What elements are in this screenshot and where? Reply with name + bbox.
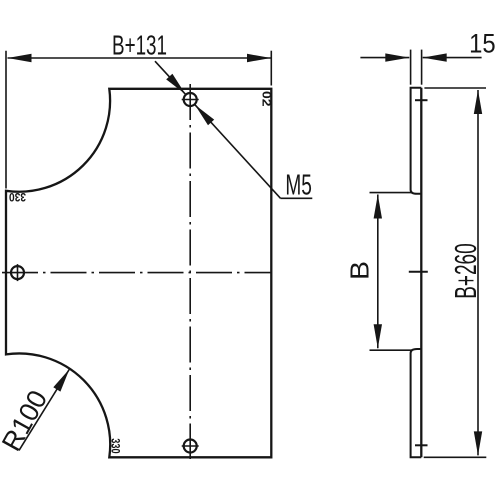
dimension B+131 line <box>8 57 272 59</box>
svg-text:M5: M5 <box>285 170 312 202</box>
hole left <box>11 264 24 281</box>
leader M5 upper segment <box>155 61 186 94</box>
dimension 15 extension lines <box>410 50 412 85</box>
dimension 15 line right <box>423 57 482 59</box>
side view top flange <box>411 88 422 194</box>
dimension B+260 arrow up <box>474 90 482 114</box>
svg-text:330: 330 <box>9 190 26 204</box>
leader M5 landing <box>281 197 313 199</box>
dimension B+131 extension line left <box>5 51 7 189</box>
svg-text:B+260: B+260 <box>448 243 483 299</box>
dimension B arrow up <box>374 195 382 219</box>
dimension 15 arrow left <box>385 53 409 61</box>
dimension B+131 extension line right <box>270 51 272 86</box>
dimension B line <box>377 195 379 349</box>
leader R100 <box>19 369 70 450</box>
svg-text:B+131: B+131 <box>112 29 167 60</box>
svg-text:15: 15 <box>469 29 496 59</box>
leader M5 arrow upper <box>166 74 185 95</box>
part outline (plan view of tee cover) <box>6 89 271 458</box>
dimension B extension lines <box>370 192 413 194</box>
horizontal centerline <box>2 272 272 274</box>
svg-text:330: 330 <box>109 438 123 454</box>
dimension B+131 arrow left <box>8 54 32 62</box>
leader M5 lower segment <box>195 105 281 199</box>
svg-text:R100: R100 <box>0 385 53 456</box>
dimension B+260 line <box>477 90 479 455</box>
side view bottom flange <box>411 349 422 457</box>
vertical centerline <box>189 84 191 459</box>
dimension B+260 extension line top <box>424 87 486 89</box>
dimension B+260 extension line bottom <box>424 456 487 458</box>
hole top (M5) <box>182 93 199 106</box>
leader R100 arrow <box>53 369 69 392</box>
dimension 15 arrow right <box>423 53 447 61</box>
svg-text:B: B <box>345 261 375 280</box>
dimension B arrow down <box>374 324 382 348</box>
dimension B+131 arrow right <box>247 54 271 62</box>
side view hole tick bottom <box>415 444 428 446</box>
side view hole tick middle <box>409 271 428 273</box>
leader M5 arrow lower <box>195 105 214 126</box>
side view hole tick top <box>415 99 428 101</box>
side view main surface line <box>420 88 422 458</box>
dimension 15 line left <box>360 57 409 59</box>
svg-text:02: 02 <box>260 91 274 107</box>
dimension B+260 arrow down <box>474 431 482 455</box>
hole bottom <box>182 440 199 453</box>
